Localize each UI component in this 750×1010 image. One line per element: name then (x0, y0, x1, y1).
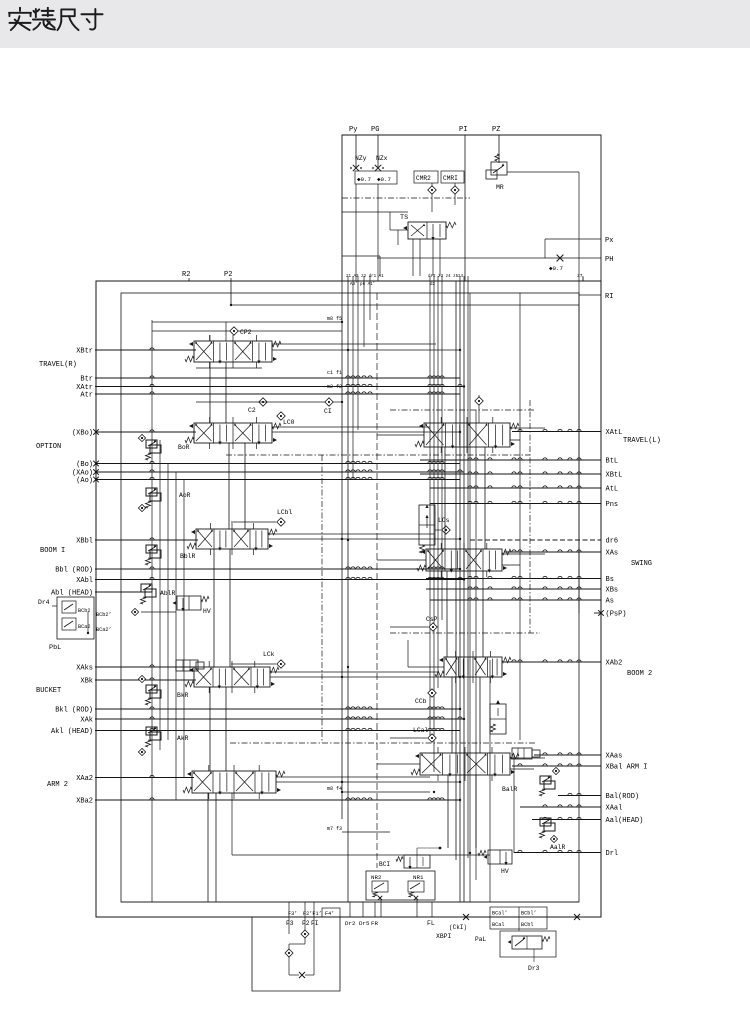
svg-text:A3’ p6 A1’: A3’ p6 A1’ (350, 282, 375, 287)
svg-text:F2’F1’: F2’F1’ (303, 911, 322, 917)
svg-text:XBtL: XBtL (606, 472, 623, 480)
svg-text:BOOM 2: BOOM 2 (627, 670, 652, 678)
svg-text:TS: TS (400, 214, 408, 222)
port F4* box (322, 908, 340, 917)
svg-text:PZ: PZ (492, 126, 500, 134)
svg-text:CI: CI (324, 408, 332, 415)
title bar (0, 0, 750, 48)
dash centerline 4 (230, 742, 535, 744)
wire boom1 ports (268, 533, 434, 535)
wire NR stubs (380, 900, 382, 917)
svg-text:HV: HV (203, 608, 211, 615)
spool valve OPTION (194, 423, 272, 443)
svg-text:BkR: BkR (177, 692, 189, 699)
bus c6 (467, 281, 469, 858)
bus right z7 (582, 277, 584, 281)
svg-text:m7 f3: m7 f3 (327, 826, 342, 832)
svg-text:XAal: XAal (606, 805, 623, 813)
svg-text:BCI: BCI (379, 861, 390, 868)
svg-text:Px: Px (605, 237, 613, 245)
svg-text:BOOM I: BOOM I (40, 547, 65, 555)
svg-text:Dr5: Dr5 (359, 920, 370, 927)
bus c4 (455, 281, 457, 860)
wire spool interconnect right (444, 447, 446, 549)
svg-text:PG: PG (371, 126, 379, 134)
block NR (366, 871, 435, 900)
svg-text:CMRI: CMRI (443, 175, 458, 182)
check valve CMRI (441, 171, 464, 183)
wire option row (196, 401, 325, 403)
svg-text:c1 f1: c1 f1 (327, 370, 342, 376)
pilot bus z3 (352, 281, 354, 480)
svg-text:Abl (HEAD): Abl (HEAD) (51, 590, 93, 598)
valve HV arm (488, 850, 512, 864)
wire swing ports (502, 553, 545, 555)
svg-text:Akl (HEAD): Akl (HEAD) (51, 728, 93, 736)
svg-text:F4’: F4’ (325, 911, 334, 917)
relief valve MR (495, 154, 499, 161)
check valve f2 (301, 930, 309, 938)
spool valve ARM I (420, 753, 510, 775)
wire travel r out (272, 349, 460, 351)
svg-text:As: As (606, 598, 614, 606)
svg-text:Py: Py (349, 126, 357, 134)
svg-text:Dr3: Dr3 (528, 965, 540, 972)
svg-text:m8 f4: m8 f4 (327, 786, 342, 792)
svg-text:TRAVEL(R): TRAVEL(R) (39, 361, 77, 369)
svg-text:PI: PI (459, 126, 467, 134)
bottom frame line (96, 916, 601, 918)
wire boom1 out (268, 538, 460, 540)
svg-text:FI: FI (311, 920, 319, 927)
check valve LCk (277, 660, 285, 668)
svg-text:BCa2’: BCa2’ (96, 627, 112, 633)
wire swing in (377, 559, 426, 561)
svg-text:BoR: BoR (178, 444, 190, 451)
spool valve BUCKET (194, 667, 270, 687)
svg-text:z4: z4 (458, 275, 464, 279)
dash centerline travelL (390, 409, 535, 411)
port RI (579, 294, 601, 296)
spool valve ARM 2 (192, 771, 276, 793)
relief valve AalR (540, 818, 551, 826)
orifice PH 0.7 (557, 255, 564, 262)
wire PZ to MR (498, 162, 500, 163)
svg-text:LCk: LCk (263, 651, 275, 658)
svg-text:(PsP): (PsP) (606, 611, 627, 619)
check valve CCb (428, 689, 436, 697)
svg-text:XAb2: XAb2 (606, 660, 623, 668)
svg-text:Btr: Btr (80, 376, 93, 384)
wire bucket ports (270, 671, 438, 673)
vertical dash left (321, 455, 323, 743)
svg-text:NZy: NZy (355, 155, 367, 162)
svg-text:XAa2: XAa2 (76, 775, 93, 783)
pilot bus A3 (369, 281, 371, 320)
port mark right (574, 914, 580, 920)
dash centerline 2 (226, 454, 530, 456)
wire top inner (231, 304, 579, 306)
svg-text:d2: d2 (430, 282, 436, 287)
svg-text:PaL: PaL (475, 936, 486, 943)
spool valve TRAVEL(R) (194, 341, 272, 362)
svg-text:Pns: Pns (606, 501, 619, 509)
valve mark bottom (299, 972, 305, 978)
wire MR to x579 (507, 171, 579, 173)
wire arm1 in (377, 763, 420, 765)
svg-text:Atr: Atr (80, 392, 93, 400)
bus x579 (578, 258, 580, 613)
valve HV boom (177, 596, 201, 610)
relief valve BkR (146, 685, 157, 693)
svg-text:BCb2: BCb2 (78, 608, 90, 614)
left bus e (183, 479, 185, 777)
wire arm2 out (276, 781, 460, 783)
check valve CsP (429, 623, 437, 631)
svg-text:F3: F3 (286, 920, 294, 927)
svg-text:◆0.7: ◆0.7 (549, 265, 563, 272)
check valve f3 (285, 949, 293, 957)
svg-text:CP2: CP2 (240, 329, 252, 336)
svg-text:LCal: LCal (413, 727, 429, 734)
left bus b (159, 440, 161, 750)
wire travelL in (377, 434, 424, 436)
spool valve BOOM 2 (444, 657, 502, 677)
svg-text:BCa2: BCa2 (78, 624, 90, 630)
pilot section frame (342, 135, 601, 281)
right bus d (513, 754, 515, 853)
compensator arm1 (512, 748, 532, 759)
check valve LCbl (277, 518, 285, 526)
relief valve AblR (141, 584, 152, 592)
valve CCb body (490, 704, 506, 734)
svg-text:XAbl: XAbl (76, 577, 93, 585)
relief valve BoR (146, 440, 157, 448)
svg-text:BCbl: BCbl (521, 922, 533, 928)
svg-text:XBk: XBk (80, 678, 93, 686)
check valve travelL (475, 397, 483, 405)
svg-text:dr2 z3 z4 z5: dr2 z3 z4 z5 (428, 274, 459, 279)
relief valve BalR (540, 776, 551, 784)
relief valve AoR (146, 488, 157, 496)
svg-text:Drl: Drl (606, 850, 619, 858)
svg-text:z1 A3 z2 dr1 A1: z1 A3 z2 dr1 A1 (346, 274, 384, 279)
svg-text:MR: MR (496, 184, 504, 191)
svg-text:CsP: CsP (426, 616, 438, 623)
wire TS ports (412, 239, 414, 276)
block PbL (57, 597, 94, 639)
check valve CI (325, 398, 333, 406)
svg-text:BCal: BCal (492, 922, 504, 928)
wire arm2 ports (276, 776, 430, 778)
svg-text:TRAVEL(L): TRAVEL(L) (623, 437, 661, 445)
svg-text:HV: HV (501, 868, 509, 875)
check valve CMR2 (414, 171, 438, 183)
check valve LC0 (277, 412, 285, 420)
svg-text:Bkl (ROD): Bkl (ROD) (55, 707, 93, 715)
svg-text:NR2: NR2 (371, 874, 382, 881)
svg-text:Bs: Bs (606, 576, 614, 584)
svg-text:BtL: BtL (606, 458, 619, 466)
wire option ports (272, 426, 430, 428)
pilot bus z2 (347, 281, 349, 902)
pilot dash-dot line (342, 197, 470, 199)
svg-text:BalR: BalR (502, 786, 518, 793)
check valve CP2 (230, 327, 238, 335)
dash centerline 3 (390, 632, 540, 634)
svg-text:XBal ARM I: XBal ARM I (606, 764, 648, 772)
bus z3b (433, 281, 435, 772)
svg-text:PH: PH (605, 256, 613, 264)
svg-text:◆0.7: ◆0.7 (377, 176, 391, 183)
svg-text:AtL: AtL (606, 486, 619, 494)
svg-text:NZx: NZx (376, 155, 388, 162)
main valve block outer frame (96, 281, 601, 917)
wire arm1 ports (510, 757, 545, 759)
left bus d (175, 472, 177, 800)
svg-text:OPTION: OPTION (36, 443, 61, 451)
check valve LCal (428, 734, 436, 742)
wire spool interconnect left (209, 362, 211, 423)
wire pilot internal (342, 211, 408, 213)
left bus a (151, 320, 153, 902)
svg-text:XAks: XAks (76, 665, 93, 673)
svg-text:XBPI: XBPI (436, 933, 452, 940)
vertical dash centerline (529, 400, 531, 633)
bottom box (252, 917, 340, 991)
pilot bus A1 (363, 281, 365, 347)
port Px (545, 238, 601, 240)
svg-text:Dr2: Dr2 (345, 920, 356, 927)
svg-text:dr6: dr6 (606, 538, 619, 546)
svg-text:XBa2: XBa2 (76, 798, 93, 806)
svg-text:XAk: XAk (80, 717, 93, 725)
svg-text:P2: P2 (224, 271, 232, 279)
svg-text:(CkI): (CkI) (449, 924, 467, 931)
check valve C2 (259, 398, 267, 406)
bus z5 (441, 281, 443, 620)
svg-text:z7: z7 (577, 273, 583, 279)
check valve LCs out (442, 526, 450, 534)
svg-text:LCbl: LCbl (277, 509, 293, 516)
svg-text:NR1: NR1 (413, 874, 424, 881)
compensator bucket (176, 660, 198, 671)
svg-text:C2: C2 (248, 407, 256, 414)
svg-text:PbL: PbL (49, 644, 61, 652)
svg-text:XAs: XAs (606, 550, 619, 558)
left bus c (167, 463, 169, 740)
spool valve SWING (426, 549, 502, 571)
svg-text:SWING: SWING (631, 560, 652, 568)
wire travelR ports (272, 343, 436, 345)
table BCal (490, 907, 547, 929)
port PH (377, 257, 601, 259)
svg-text:BCal’: BCal’ (492, 911, 508, 917)
svg-text:Aal(HEAD): Aal(HEAD) (606, 817, 644, 825)
svg-text:AblR: AblR (160, 590, 176, 597)
valve LCs (419, 505, 435, 545)
svg-text:F2: F2 (302, 920, 310, 927)
svg-text:AoR: AoR (179, 492, 191, 499)
bus z4 (437, 281, 439, 688)
svg-text:Bal(ROD): Bal(ROD) (606, 793, 640, 801)
wire right col1 (509, 432, 511, 446)
svg-text:FR: FR (371, 920, 378, 927)
center dashed bus (376, 293, 378, 868)
wire bucket out (270, 676, 460, 678)
svg-text:◆0.7: ◆0.7 (357, 176, 371, 183)
bus c5 (463, 281, 465, 902)
svg-text:m8 f5: m8 f5 (327, 316, 342, 322)
svg-text:Dr4: Dr4 (38, 599, 50, 606)
svg-text:BCbl’: BCbl’ (521, 911, 537, 917)
svg-text:ARM 2: ARM 2 (47, 781, 68, 789)
wire bottom inner frame (121, 901, 579, 903)
svg-text:XAas: XAas (606, 753, 623, 761)
svg-text:BblR: BblR (180, 553, 196, 560)
svg-text:XBbl: XBbl (76, 538, 93, 546)
svg-text:AkR: AkR (177, 735, 189, 742)
bus dr2 (429, 281, 431, 738)
pilot bus z1 (341, 281, 343, 819)
svg-text:LC0: LC0 (283, 419, 295, 426)
svg-text:CMR2: CMR2 (416, 175, 431, 182)
svg-text:AalR: AalR (550, 844, 566, 851)
wire travelL ports (510, 427, 545, 429)
main valve block inner frame (121, 293, 579, 902)
svg-text:XAtL: XAtL (606, 429, 623, 437)
right bus a (469, 293, 471, 902)
junction dots (230, 304, 232, 306)
spool valve BOOM I (196, 529, 268, 549)
svg-text:FL: FL (427, 920, 435, 927)
svg-text:(XBo): (XBo) (72, 430, 93, 438)
wire hv (141, 611, 176, 613)
relief valve BblR (146, 545, 157, 553)
svg-text:F3’: F3’ (288, 911, 297, 917)
svg-text:LCs: LCs (438, 517, 450, 524)
pilot bus dr1 (357, 281, 359, 430)
svg-text:BCb2’: BCb2’ (96, 612, 112, 618)
wire option out (272, 431, 460, 433)
svg-text:R2: R2 (182, 271, 190, 279)
svg-text:m2 f2: m2 f2 (327, 384, 342, 390)
spool valve TRAVEL(L) (424, 423, 510, 447)
port ticks above frame (347, 276, 349, 281)
right bus c (489, 660, 491, 902)
svg-text:CCb: CCb (415, 698, 427, 705)
right bus b (475, 410, 477, 880)
svg-text:Bbl (ROD): Bbl (ROD) (55, 567, 93, 575)
relief valve AkR (146, 727, 157, 735)
wire boom2 in (408, 666, 444, 668)
svg-text:RI: RI (605, 293, 613, 301)
svg-text:(Ao): (Ao) (76, 477, 93, 485)
svg-text:(Bo): (Bo) (76, 461, 93, 469)
svg-text:BUCKET: BUCKET (36, 687, 61, 695)
wire arm2 bottom (231, 793, 233, 855)
bus x520 (519, 293, 521, 740)
svg-text:XBs: XBs (606, 587, 619, 595)
orifice value box (355, 171, 397, 184)
svg-text:XBtr: XBtr (76, 348, 93, 356)
